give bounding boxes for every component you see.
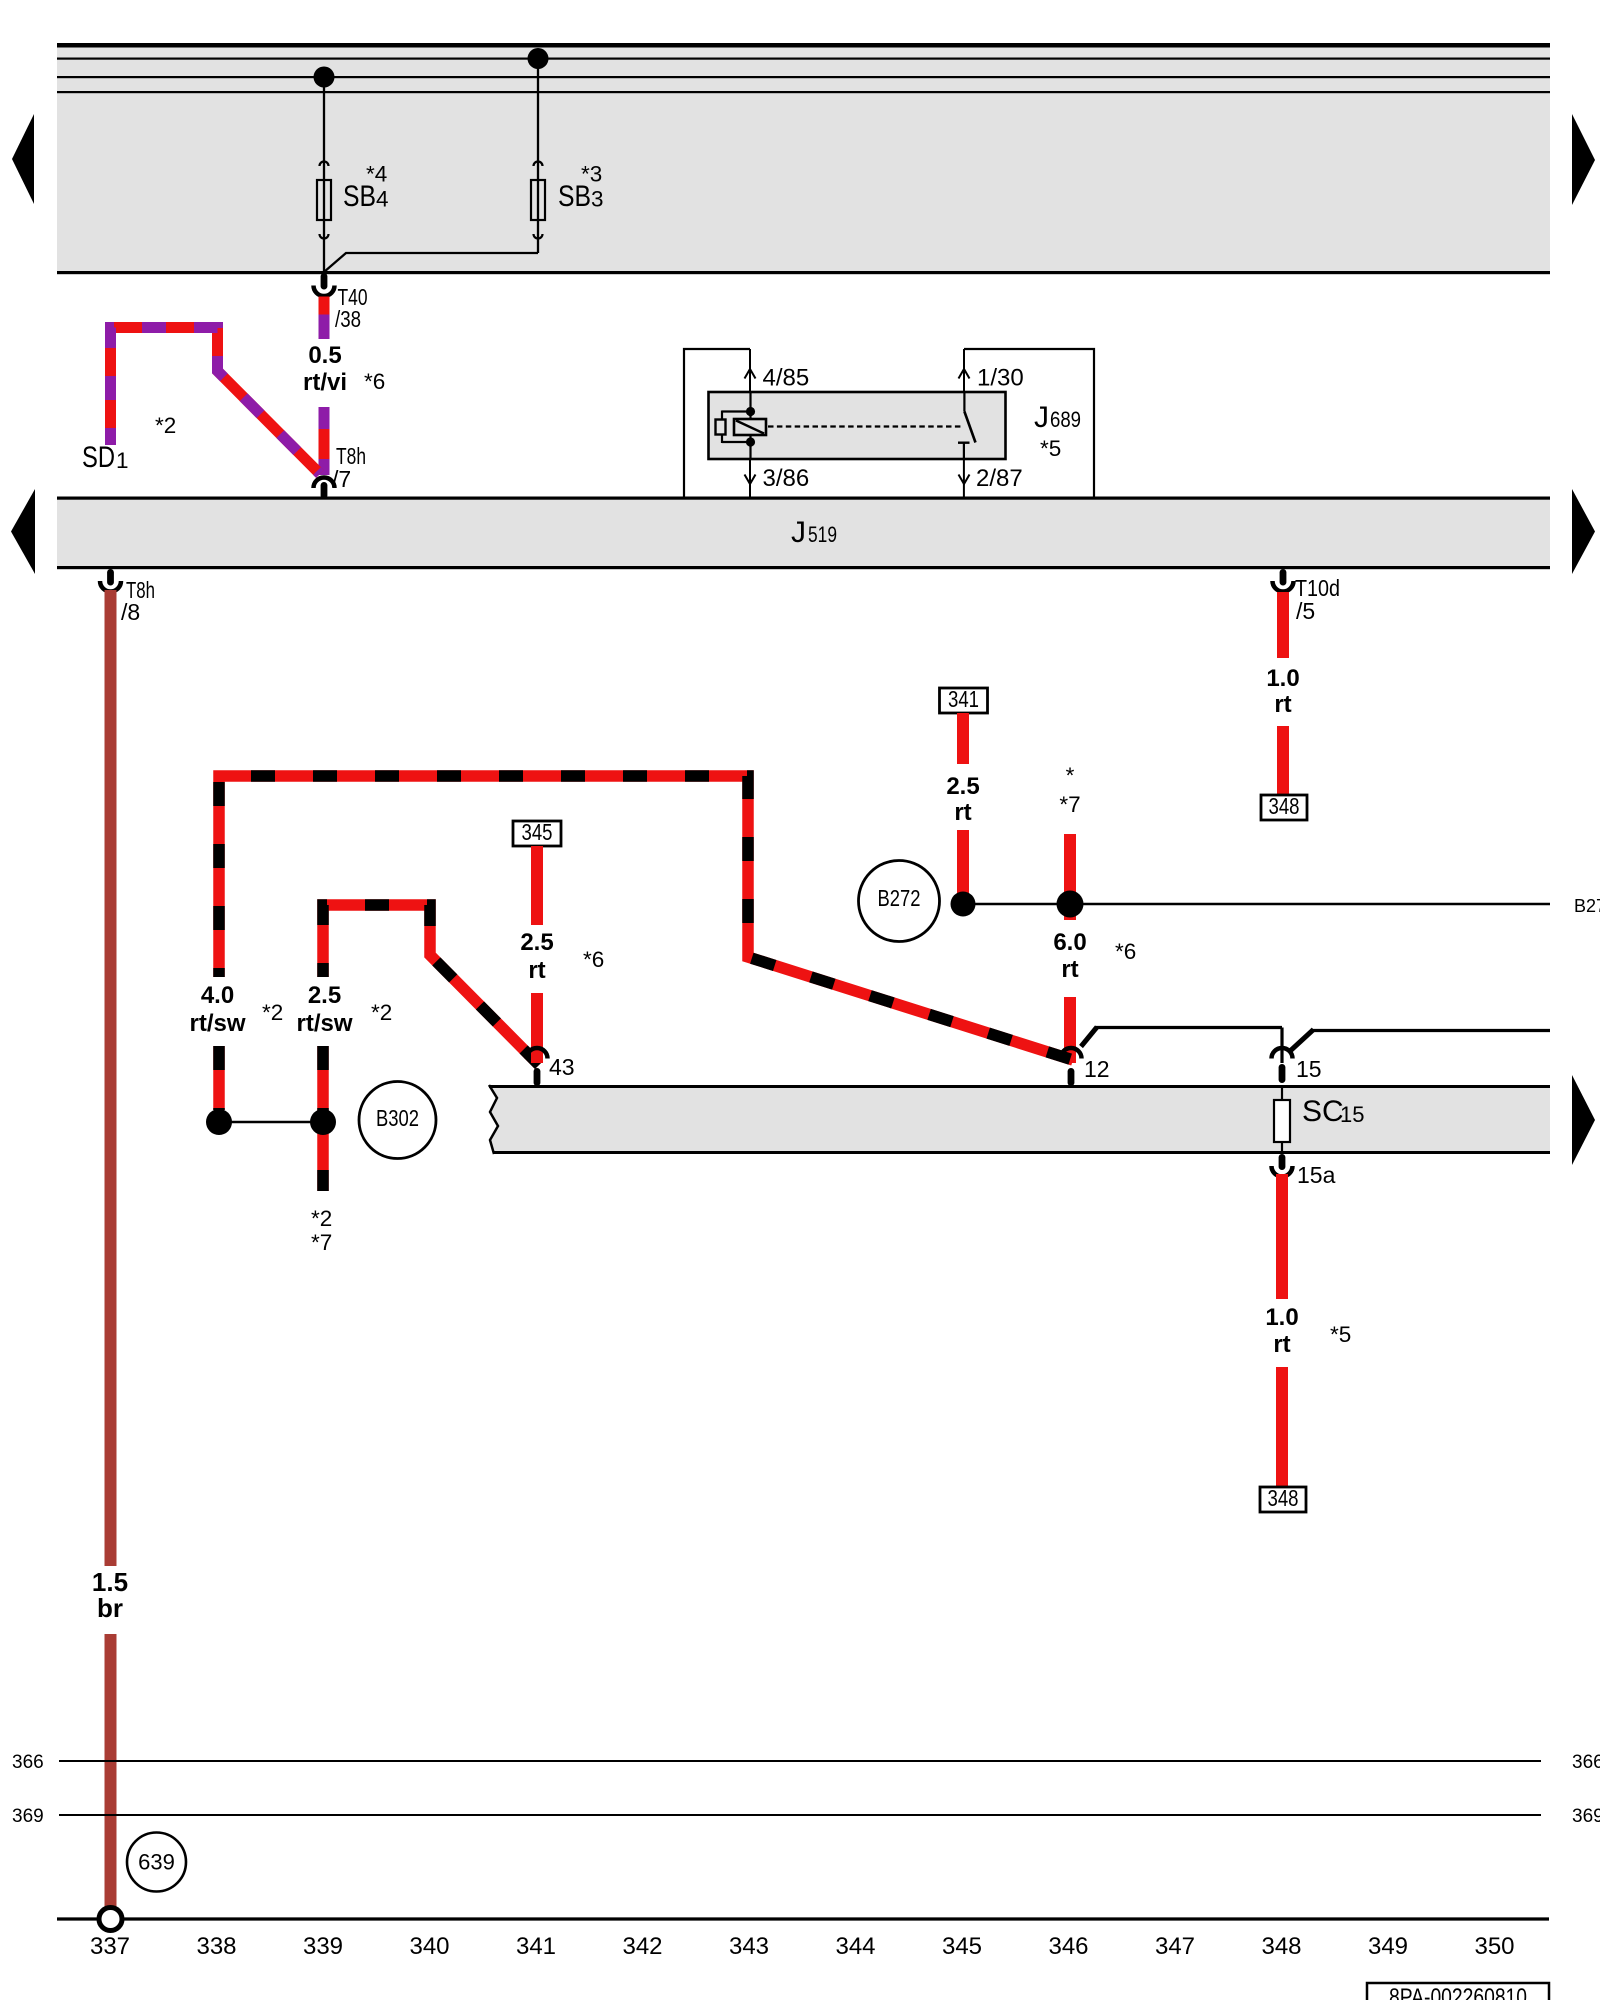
relay coil junction dots xyxy=(746,407,755,416)
svg-text:345: 345 xyxy=(522,819,553,845)
svg-text:*7: *7 xyxy=(311,1230,332,1255)
control unit band J519 xyxy=(57,497,1550,570)
svg-text:348: 348 xyxy=(1269,793,1300,819)
svg-text:347: 347 xyxy=(1155,1933,1195,1960)
ground designation circle 639 xyxy=(127,1833,186,1892)
label SB3 xyxy=(558,180,604,213)
terminal T40/38 (plug connector) xyxy=(314,273,335,296)
terminal 15 (plug connector) xyxy=(1272,1048,1293,1083)
svg-text:rt/sw: rt/sw xyxy=(189,1010,245,1037)
wire 0.5 rt/vi lower segment xyxy=(319,407,330,475)
wire 1.0 rt (T10d) lower xyxy=(1277,726,1289,795)
svg-text:369: 369 xyxy=(1572,1806,1600,1827)
relay actuation dashed link xyxy=(768,425,963,427)
svg-text:1/30: 1/30 xyxy=(977,365,1024,392)
pin 1/30 chevron xyxy=(959,369,970,379)
svg-text:*2: *2 xyxy=(311,1206,332,1231)
svg-text:339: 339 xyxy=(303,1933,343,1960)
svg-text:1: 1 xyxy=(116,448,129,473)
svg-text:2.5: 2.5 xyxy=(520,929,553,956)
svg-text:343: 343 xyxy=(729,1933,769,1960)
svg-text:/5: /5 xyxy=(1296,598,1315,624)
svg-text:*6: *6 xyxy=(1115,939,1136,964)
pin 4/85 chevron xyxy=(745,369,756,379)
ground rail xyxy=(57,1917,1549,1920)
svg-text:SC: SC xyxy=(1302,1095,1344,1128)
fuse SB4 xyxy=(317,180,331,220)
destination box 348 (upper) xyxy=(1261,793,1307,820)
pin 4/85 wire xyxy=(749,349,751,392)
svg-text:348: 348 xyxy=(1268,1485,1299,1511)
svg-text:348: 348 xyxy=(1261,1933,1301,1960)
break hook above fuse SB4 xyxy=(320,162,329,167)
svg-text:SD: SD xyxy=(82,441,115,474)
svg-text:3: 3 xyxy=(591,187,604,212)
junction node (4.0 wire) xyxy=(206,1109,232,1135)
ground terminal (639) xyxy=(99,1908,122,1931)
track grid numbers xyxy=(90,1933,1515,1960)
svg-text:*6: *6 xyxy=(364,369,385,394)
wire SD1 red/violet xyxy=(111,328,321,475)
svg-text:639: 639 xyxy=(138,1850,175,1875)
pin 2/87 wire xyxy=(963,459,965,497)
svg-text:rt: rt xyxy=(1274,691,1291,718)
relay J689 inner body xyxy=(709,392,1006,459)
svg-text:1.0: 1.0 xyxy=(1266,665,1299,692)
relay J689 outer box xyxy=(684,349,1094,497)
svg-text:*5: *5 xyxy=(1330,1322,1351,1347)
destination box 341 xyxy=(940,686,988,713)
terminal 12 (plug connector) xyxy=(1061,1048,1082,1086)
wire B272 bus line xyxy=(963,903,1550,906)
svg-text:341: 341 xyxy=(516,1933,556,1960)
terminal 43 (plug connector) xyxy=(527,1048,548,1086)
left page arrow (top band) xyxy=(12,114,34,204)
svg-text:/38: /38 xyxy=(335,306,361,332)
svg-text:rt: rt xyxy=(1061,956,1078,983)
svg-text:J: J xyxy=(1034,401,1049,434)
label J689 xyxy=(1034,401,1081,434)
svg-text:43: 43 xyxy=(549,1054,575,1080)
left page arrow (J519) xyxy=(11,489,35,574)
destination box 348 (lower) xyxy=(1260,1485,1306,1512)
connection node B272 xyxy=(951,892,976,917)
label J519 xyxy=(791,516,837,549)
wire 0.5 rt/vi upper segment xyxy=(319,297,330,340)
junction on 6.0 rt wire xyxy=(1057,891,1084,918)
svg-text:366: 366 xyxy=(12,1752,44,1773)
svg-text:15a: 15a xyxy=(1297,1162,1336,1188)
svg-text:1.0: 1.0 xyxy=(1265,1304,1298,1331)
fuse SC15 xyxy=(1274,1086,1290,1154)
svg-text:rt: rt xyxy=(954,799,971,826)
relay switch contact xyxy=(958,392,976,459)
svg-text:8PA-002260810: 8PA-002260810 xyxy=(1389,1984,1527,2000)
svg-text:rt/sw: rt/sw xyxy=(296,1010,352,1037)
terminal 15a (plug connector) xyxy=(1272,1154,1293,1177)
svg-text:J: J xyxy=(791,516,806,549)
break hook below fuse SB3 xyxy=(534,234,543,239)
wire fuse SB3 to T40 exit xyxy=(324,253,538,272)
relay coil leads xyxy=(722,392,751,459)
svg-text:*5: *5 xyxy=(1040,436,1061,461)
svg-text:349: 349 xyxy=(1368,1933,1408,1960)
drawing number plate 8PA-002260810 xyxy=(1367,1983,1549,2000)
svg-text:2.5: 2.5 xyxy=(946,773,979,800)
svg-text:345: 345 xyxy=(942,1933,982,1960)
svg-text:B302: B302 xyxy=(376,1105,419,1131)
wire SB4 tap to fuse xyxy=(323,77,325,272)
right page arrow (J519) xyxy=(1572,489,1595,574)
svg-text:519: 519 xyxy=(808,522,837,547)
terminal T8h/7 (plug connector) xyxy=(314,478,335,499)
junction node on bus line (SB4 tap) xyxy=(314,67,335,88)
bus bar band (top supply rail) xyxy=(57,43,1550,274)
relay series resistor xyxy=(716,420,726,435)
wire 1.5 br lower run xyxy=(105,1634,117,1907)
label SC15 xyxy=(1302,1095,1364,1128)
svg-text:4/85: 4/85 xyxy=(763,365,810,392)
pin 3/86 chevron xyxy=(745,475,756,485)
wire 2.5 rt (345) upper xyxy=(531,846,543,925)
relay coil xyxy=(734,419,766,435)
svg-text:2/87: 2/87 xyxy=(976,465,1023,492)
destination box 345 xyxy=(513,819,561,846)
svg-text:344: 344 xyxy=(835,1933,875,1960)
fuse band SC xyxy=(489,1085,1550,1154)
terminal T8h/8 (plug connector) xyxy=(100,569,121,592)
wire 1.0 rt (T10d) upper xyxy=(1277,592,1289,658)
svg-text:12: 12 xyxy=(1084,1056,1110,1082)
pin 2/87 chevron xyxy=(959,475,970,485)
fuse SB3 xyxy=(531,180,545,220)
svg-text:366: 366 xyxy=(1572,1752,1600,1773)
junction node (2.5 wire) xyxy=(310,1109,336,1135)
wire 2.5 rt (341) lower xyxy=(957,830,969,904)
svg-text:340: 340 xyxy=(409,1933,449,1960)
wire SB3 tap to fuse xyxy=(537,58,539,253)
right page arrow (SC band) xyxy=(1572,1075,1595,1165)
svg-text:B272: B272 xyxy=(1574,896,1600,916)
break hook below fuse SB4 xyxy=(320,234,329,239)
wire thin link pin12 area to pin 15 xyxy=(1081,1027,1550,1063)
svg-text:*7: *7 xyxy=(1059,792,1080,817)
svg-text:rt/vi: rt/vi xyxy=(303,369,347,396)
wire 1.0 rt (15a) lower xyxy=(1276,1367,1288,1487)
svg-text:/8: /8 xyxy=(121,599,140,625)
pin 1/30 wire xyxy=(963,349,965,392)
wire 2.5 rt (345) lower xyxy=(531,993,543,1063)
svg-text:337: 337 xyxy=(90,1933,130,1960)
svg-text:3/86: 3/86 xyxy=(763,465,810,492)
svg-text:SB: SB xyxy=(343,180,376,213)
break hook above fuse SB3 xyxy=(534,162,543,167)
wire 1.0 rt (15a) upper xyxy=(1276,1174,1288,1299)
svg-text:369: 369 xyxy=(12,1806,44,1827)
svg-text:350: 350 xyxy=(1474,1933,1514,1960)
svg-text:*: * xyxy=(1066,763,1075,788)
svg-text:2.5: 2.5 xyxy=(308,982,341,1009)
svg-text:br: br xyxy=(97,1593,123,1623)
label SD1 xyxy=(82,441,129,474)
svg-text:15: 15 xyxy=(1296,1056,1322,1082)
svg-text:15: 15 xyxy=(1340,1102,1364,1127)
label SB4 xyxy=(343,180,389,213)
svg-text:4: 4 xyxy=(376,187,389,212)
svg-text:rt: rt xyxy=(1273,1331,1290,1358)
svg-text:689: 689 xyxy=(1050,407,1081,432)
svg-text:0.5: 0.5 xyxy=(308,342,341,369)
label circle B302 xyxy=(359,1082,436,1159)
current track line 366 xyxy=(12,1752,1600,1773)
wire 6.0 rt upper xyxy=(1064,834,1076,920)
terminal T10d/5 (plug connector) xyxy=(1273,569,1294,592)
current track line 369 xyxy=(12,1806,1600,1827)
wire 6.0 rt lower xyxy=(1064,997,1076,1063)
svg-text:342: 342 xyxy=(622,1933,662,1960)
svg-text:/7: /7 xyxy=(332,466,351,492)
svg-text:6.0: 6.0 xyxy=(1053,929,1086,956)
svg-text:*2: *2 xyxy=(262,1000,283,1025)
right page arrow (top band) xyxy=(1572,114,1595,205)
pin 3/86 wire xyxy=(749,459,751,497)
svg-text:*2: *2 xyxy=(155,413,176,438)
wire 2.5 rt (341) upper xyxy=(957,713,969,764)
svg-text:346: 346 xyxy=(1048,1933,1088,1960)
svg-text:341: 341 xyxy=(948,686,979,712)
wire 1.5 br upper run xyxy=(105,590,117,1566)
svg-text:SB: SB xyxy=(558,180,591,213)
svg-text:*6: *6 xyxy=(583,947,604,972)
junction node on bus line (SB3 tap) xyxy=(528,48,549,69)
wire 2.5 rt/sw upper run xyxy=(323,905,539,1065)
svg-text:B272: B272 xyxy=(878,885,921,911)
svg-text:rt: rt xyxy=(528,957,545,984)
wire 4.0 rt/sw main run xyxy=(219,776,1073,1110)
wire 2.5 rt/sw lower run xyxy=(317,1046,329,1191)
svg-text:4.0: 4.0 xyxy=(201,982,234,1009)
label circle B272 xyxy=(859,861,940,942)
svg-text:338: 338 xyxy=(196,1933,236,1960)
svg-text:*2: *2 xyxy=(371,1000,392,1025)
wire B302 link xyxy=(219,1121,323,1123)
